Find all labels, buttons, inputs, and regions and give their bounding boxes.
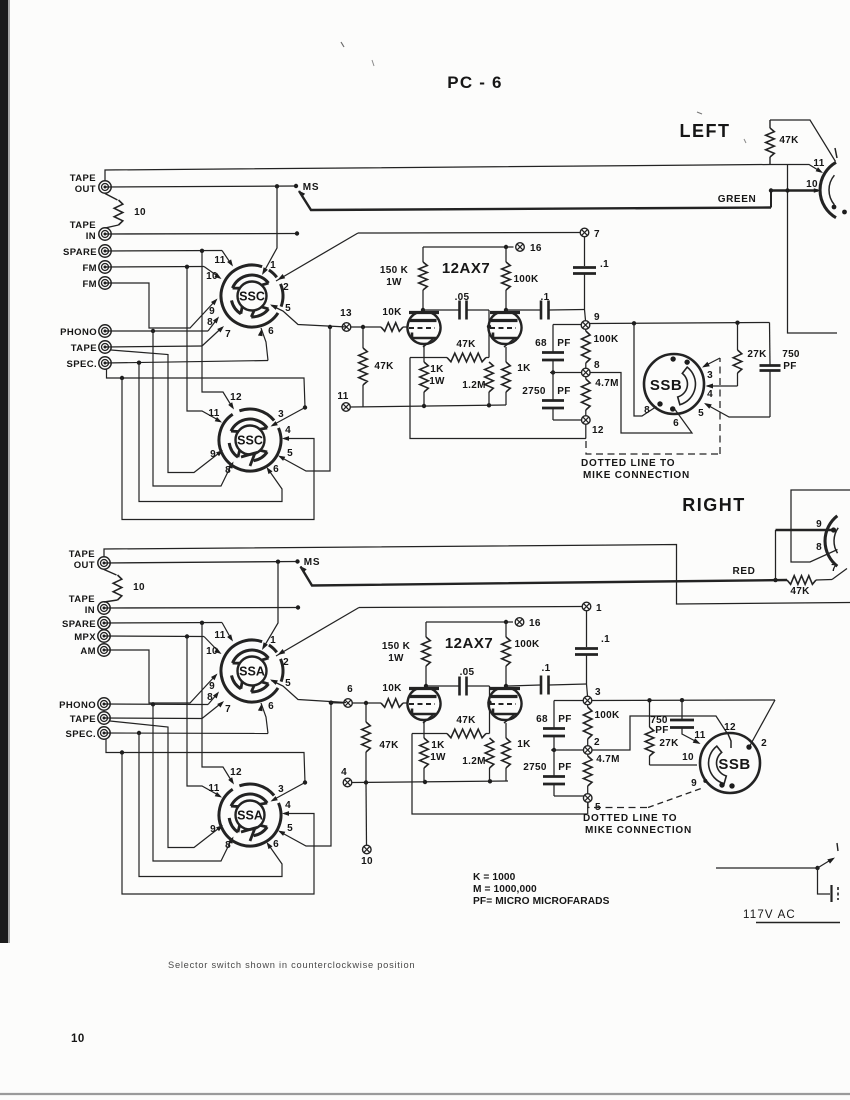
svg-text:MS: MS [304, 557, 321, 568]
svg-text:47K: 47K [456, 715, 476, 726]
wire: jack PHONO to SSC pin 8 [105, 330, 208, 332]
svg-text:47K: 47K [456, 339, 476, 350]
wire: SPARE drop to SSA2 pin 12 [202, 623, 233, 783]
svg-text:PF: PF [557, 338, 570, 349]
capacitor .1 (right, to node 1) [586, 611, 588, 647]
svg-text:3: 3 [595, 687, 601, 698]
capacitor .05 (right) [426, 685, 459, 687]
wire: SSB pin 3 to mike dashed line (left) [704, 358, 721, 367]
wire: cathode rail (right) [352, 781, 508, 783]
svg-text:PF: PF [558, 762, 571, 773]
svg-text:11: 11 [214, 630, 225, 641]
svg-text:4.7M: 4.7M [596, 754, 619, 765]
svg-text:47K: 47K [790, 586, 810, 597]
svg-text:100K: 100K [593, 334, 619, 345]
svg-text:PHONO: PHONO [59, 700, 96, 711]
wire: PHONO drop to SSC2 pin 8 [153, 331, 232, 486]
svg-text:4: 4 [285, 425, 291, 436]
resistor 47K (right output) [787, 576, 816, 585]
svg-text:6: 6 [273, 464, 279, 475]
wire: 47K top to output switch pin 1 [770, 120, 836, 162]
jack J16 SPEC. (right) [98, 727, 110, 739]
svg-text:TAPE: TAPE [69, 549, 95, 560]
wire: TAPE IN row (right) [104, 607, 298, 610]
svg-text:10: 10 [133, 582, 145, 593]
svg-text:2: 2 [594, 737, 600, 748]
svg-text:12: 12 [230, 767, 242, 778]
wire: MPX drop to SSA2 pin 11 [187, 637, 220, 797]
svg-text:8: 8 [644, 405, 650, 416]
resistor 10K (right) [352, 702, 381, 704]
svg-text:10: 10 [134, 207, 146, 218]
svg-text:6: 6 [347, 684, 353, 695]
svg-text:3: 3 [278, 784, 284, 795]
rotary switch SSC (top wafer, left) [221, 265, 278, 327]
svg-text:PF: PF [557, 386, 570, 397]
wire: cathode rail (left) [351, 405, 507, 407]
wire: node 16 rail (left) [423, 246, 514, 248]
svg-text:OUT: OUT [74, 560, 95, 571]
svg-text:2: 2 [761, 738, 767, 749]
svg-text:68: 68 [535, 338, 547, 349]
svg-text:9: 9 [594, 312, 600, 323]
wire: node 11 row to SSC2 pin 3 [303, 405, 307, 409]
jack J11 SPARE (right) [98, 617, 110, 629]
svg-text:SPARE: SPARE [62, 619, 96, 630]
resistor 10 (right tape loop) [104, 570, 117, 576]
jack J5 FM (left) [99, 277, 111, 289]
wire: node 2 to SSB pin 12 (right) [592, 716, 727, 750]
node 7 [580, 228, 589, 237]
svg-text:7: 7 [225, 704, 231, 715]
svg-text:16: 16 [529, 618, 541, 629]
svg-text:2750: 2750 [522, 386, 546, 397]
resistor 1K 1W (right) [423, 721, 425, 738]
capacitor 68 PF (left) [552, 325, 554, 353]
svg-text:11: 11 [214, 255, 225, 266]
svg-text:1K: 1K [517, 739, 531, 750]
wire: jack PHONO to SSA pin 8 [104, 703, 208, 706]
capacitor .1 coupling (right) [506, 685, 540, 686]
svg-text:8: 8 [816, 542, 822, 553]
wire: jack FM2 to SSC pin 9 [105, 283, 216, 328]
svg-text:2750: 2750 [523, 762, 547, 773]
triode V1A (left) [408, 313, 441, 344]
jack J9 TAPE OUT (right) [98, 557, 110, 569]
svg-text:.1: .1 [600, 259, 609, 270]
wire: TAPE drop to SSA2 pin 9 [110, 721, 221, 848]
svg-text:10: 10 [206, 271, 218, 282]
jack J7 TAPE (left) [99, 341, 111, 353]
wire: node 6 drop to SSA2 pin 5 [329, 701, 333, 705]
wire: TAPE IN row (left) [105, 233, 297, 236]
svg-text:DOTTED LINE TO: DOTTED LINE TO [581, 458, 675, 469]
svg-text:10: 10 [361, 856, 373, 867]
node 13 [342, 323, 351, 332]
svg-text:150 K: 150 K [380, 265, 409, 276]
svg-text:TAPE: TAPE [71, 343, 97, 354]
node 16 (left) [516, 243, 525, 252]
svg-text:12: 12 [592, 425, 604, 436]
resistor 150K 1W (right) [425, 622, 427, 637]
wire: jack TAPE to SSA pin 7 [104, 717, 202, 720]
svg-text:4.7M: 4.7M [595, 378, 618, 389]
svg-text:4: 4 [341, 767, 347, 778]
svg-text:3: 3 [707, 370, 713, 381]
svg-text:SPARE: SPARE [63, 247, 97, 258]
node 10 (right) [363, 845, 372, 854]
svg-text:6: 6 [273, 839, 279, 850]
resistor 47K feedback (right) [412, 733, 447, 735]
jack J14 PHONO (right) [98, 698, 110, 710]
svg-text:PC - 6: PC - 6 [447, 73, 502, 92]
svg-text:68: 68 [536, 714, 548, 725]
svg-text:OUT: OUT [75, 184, 96, 195]
svg-text:1K: 1K [517, 363, 531, 374]
scan specks [341, 42, 344, 47]
wire: FM drop to SSC2 pin 11 [187, 267, 220, 421]
rotary switch (left output, partial at page edge) [820, 162, 836, 217]
rotary switch (right output, partial at page edge) [825, 516, 837, 566]
wire: .05 output to tube2 grid (right) [489, 686, 491, 734]
wire: SPARE drop to SSC2 pin 12 [202, 251, 233, 408]
svg-text:LEFT: LEFT [680, 121, 731, 141]
jack J6 PHONO (left) [99, 325, 111, 337]
svg-text:5: 5 [287, 448, 293, 459]
svg-text:RED: RED [733, 566, 756, 577]
svg-text:FM: FM [82, 279, 97, 290]
svg-text:PF: PF [655, 725, 668, 736]
node 11 [342, 403, 351, 412]
resistor 10K (left) [350, 326, 381, 328]
svg-text:47K: 47K [374, 361, 394, 372]
wire: TAPE OUT (right) top wire to off-page right [104, 545, 850, 605]
svg-text:11: 11 [813, 158, 824, 169]
svg-text:PHONO: PHONO [60, 327, 97, 338]
svg-text:12AX7: 12AX7 [442, 260, 490, 277]
wire: output switch pin 8 box (right) [791, 490, 850, 562]
svg-text:9: 9 [691, 778, 697, 789]
svg-text:10: 10 [206, 646, 218, 657]
resistor 47K input (left) [361, 325, 365, 329]
svg-text:5: 5 [698, 408, 704, 419]
wire: .05 output to tube2 grid and 1.2M [488, 310, 490, 358]
svg-text:7: 7 [225, 329, 231, 340]
svg-text:SSB: SSB [718, 756, 750, 773]
node 12 [582, 416, 591, 425]
capacitor 68 PF (right) [553, 701, 555, 729]
resistor 1K 1W (left) [423, 345, 425, 362]
svg-text:RIGHT: RIGHT [682, 495, 746, 515]
svg-text:10K: 10K [382, 683, 402, 694]
wire: SSB box left leg to pin 8 (left) [634, 323, 657, 416]
wire: node 8 to SSB pin 6 (left) [591, 373, 693, 434]
resistor 1.2M (left) [485, 362, 494, 392]
svg-text:.05: .05 [455, 292, 470, 303]
wire: TAPE OUT to output switch pin 11 (top long wire) [105, 165, 821, 182]
jack J4 FM (left) [99, 261, 111, 273]
wire: feedback left leg to bottom rail (right) [412, 734, 587, 815]
svg-text:PF: PF [783, 361, 796, 372]
wire: 47K input to node 10 (right) [365, 783, 368, 846]
svg-text:K = 1000: K = 1000 [473, 872, 516, 883]
rotary switch SSA (top wafer, right) [221, 640, 278, 702]
svg-text:10K: 10K [382, 307, 402, 318]
svg-text:150 K: 150 K [382, 641, 411, 652]
capacitor 750 PF (left) [769, 323, 772, 366]
wire: long vertical from pin-10 net down right side [788, 165, 838, 334]
svg-text:27K: 27K [659, 738, 679, 749]
wire: 27K to SSB pin 10 (right) [650, 764, 698, 766]
svg-text:12: 12 [724, 722, 736, 733]
switch 117V AC (bottom right) [716, 867, 817, 869]
wire: node 9 stub to 68PF [553, 324, 581, 326]
capacitor .1 coupling (left) [506, 309, 540, 311]
resistor 100K plate (right) [505, 622, 507, 637]
svg-text:6: 6 [673, 418, 679, 429]
svg-text:47K: 47K [379, 740, 399, 751]
wire: diagonal to SSC pin 2 from node7 rail [276, 233, 358, 281]
dashed mike connection line (right) [588, 802, 648, 808]
svg-text:750: 750 [782, 349, 800, 360]
wire: PHONO drop to SSA2 pin 8 [153, 704, 232, 861]
svg-text:3: 3 [278, 409, 284, 420]
capacitor .1 (left, to node 7) [584, 237, 586, 266]
svg-text:SPEC.: SPEC. [66, 359, 97, 370]
svg-text:10: 10 [806, 179, 818, 190]
capacitor 750 PF (right) [681, 700, 683, 719]
wire: node 16 rail (right) [426, 621, 513, 623]
svg-text:7: 7 [594, 229, 600, 240]
svg-text:SSA: SSA [239, 665, 265, 679]
wire: SPEC bottom rail to SSC2 pin 4 (outer loop) [107, 369, 306, 408]
wire: node 13 drop to SSC2 pin 5 [328, 325, 332, 329]
wire: SPEC bottom rail to SSA2 pin 4 (outer loop) [106, 739, 305, 783]
svg-text:8: 8 [594, 360, 600, 371]
resistor 47K (left output, top right) [766, 128, 775, 157]
capacitor 2750 PF (left) [551, 370, 555, 374]
wire: TAPE OUT row to MS switch [105, 186, 296, 187]
wire: diagonal to SSA pin 2 from node1 rail [276, 608, 359, 657]
wire: RED junction up to output switch pin 9 [773, 578, 777, 582]
resistor 150K 1W (left) [422, 247, 424, 262]
wire: feedback left leg down to bottom rail [410, 358, 586, 439]
resistor 100K plate (left) [505, 247, 507, 262]
svg-text:10: 10 [682, 752, 694, 763]
triode V2A (right) [408, 689, 441, 720]
svg-text:8: 8 [207, 692, 213, 703]
wire: SSC pin 5 to node 13 [272, 306, 348, 328]
svg-text:6: 6 [268, 326, 274, 337]
svg-text:12: 12 [230, 392, 242, 403]
svg-text:1K: 1K [430, 364, 444, 375]
resistor 10 (left tape loop) [105, 194, 118, 201]
wire: jack SPEC to SSA pin 6 [104, 732, 268, 735]
svg-text:4: 4 [285, 800, 291, 811]
svg-text:6: 6 [268, 701, 274, 712]
wire: TAPE OUT vertical to SSA pin 1 [264, 562, 279, 648]
resistor 47K feedback (left) [410, 357, 447, 359]
switch MS arm / GREEN wire (left) [299, 191, 306, 198]
wire: node 4 row to SSA2 pin 3 [303, 780, 307, 784]
svg-text:8: 8 [225, 840, 231, 851]
svg-text:.1: .1 [542, 663, 551, 674]
svg-text:117V AC: 117V AC [743, 909, 796, 921]
wire: node 7 rail [358, 232, 580, 235]
svg-text:1: 1 [270, 635, 276, 646]
wire: TAPE OUT row to MS (right) [104, 562, 298, 564]
svg-text:SSA: SSA [237, 809, 263, 823]
svg-text:1.2M: 1.2M [462, 756, 485, 767]
node 9 [585, 310, 586, 321]
jack J3 SPARE (left) [99, 245, 111, 257]
jack J12 MPX (right) [98, 630, 110, 642]
resistor 100K (left divider) [585, 330, 587, 332]
svg-text:9: 9 [816, 519, 822, 530]
svg-text:9: 9 [210, 449, 216, 460]
triode V1B (left) [489, 313, 522, 344]
wire: jack FM to SSC pin 10 [105, 266, 204, 269]
svg-text:1W: 1W [430, 752, 446, 763]
svg-text:.05: .05 [460, 667, 475, 678]
wire: node 1 rail [359, 607, 582, 608]
svg-text:1W: 1W [386, 277, 402, 288]
wire: jack SPARE to SSA pin 11 [104, 622, 222, 625]
svg-text:DOTTED LINE TO: DOTTED LINE TO [583, 813, 677, 824]
svg-text:5: 5 [285, 303, 291, 314]
svg-text:PF= MICRO MICROFARADS: PF= MICRO MICROFARADS [473, 896, 610, 907]
svg-text:5: 5 [287, 823, 293, 834]
svg-text:GREEN: GREEN [718, 194, 757, 205]
svg-text:47K: 47K [779, 135, 799, 146]
node 6 [344, 699, 353, 708]
wire: jack SPEC to SSC pin 6 [105, 361, 268, 364]
capacitor .05 (left) [423, 309, 459, 311]
resistor 1K tube2 cathode (right) [505, 723, 507, 738]
svg-text:11: 11 [208, 783, 219, 794]
node 1 [582, 602, 591, 611]
svg-text:SSB: SSB [650, 377, 682, 394]
resistor 4.7M (left) [585, 377, 587, 379]
svg-text:.1: .1 [601, 634, 610, 645]
svg-text:1.2M: 1.2M [462, 380, 485, 391]
wire: node 9 to SSB box (left) [590, 323, 770, 324]
svg-text:1K: 1K [431, 740, 445, 751]
rotary switch SSA (bottom wafer, right) [219, 789, 281, 846]
svg-text:FM: FM [82, 263, 97, 274]
wire: node 12 to bottom rail [585, 425, 587, 439]
wire: node 5 to bottom rail (right) [587, 803, 589, 814]
socket SSB (left, mike connection) [644, 354, 704, 414]
svg-text:100K: 100K [513, 274, 539, 285]
resistor 47K input (right) [364, 701, 368, 705]
svg-text:4: 4 [707, 389, 713, 400]
svg-text:PF: PF [558, 714, 571, 725]
svg-text:9: 9 [210, 824, 216, 835]
svg-text:12AX7: 12AX7 [445, 635, 493, 652]
svg-text:SSC: SSC [239, 290, 265, 304]
svg-text:10: 10 [71, 1033, 85, 1045]
svg-text:5: 5 [285, 678, 291, 689]
jack J15 TAPE (right) [98, 712, 110, 724]
svg-text:TAPE: TAPE [70, 220, 96, 231]
svg-text:AM: AM [80, 646, 96, 657]
resistor 27K (right) [649, 700, 651, 727]
triode V2B (right) [489, 689, 522, 720]
svg-text:MIKE CONNECTION: MIKE CONNECTION [583, 470, 690, 481]
svg-text:TAPE: TAPE [70, 714, 96, 725]
wire: SPEC drop to SSC2 pin 6 [139, 363, 282, 502]
svg-text:MS: MS [303, 182, 320, 193]
svg-text:1W: 1W [429, 376, 445, 387]
resistor 27K (left) [737, 323, 739, 350]
wire: SSA pin 5 to node 6 [272, 681, 347, 703]
switch MS arm / RED wire (right) [300, 566, 307, 573]
svg-text:100K: 100K [594, 710, 620, 721]
jack J10 TAPE IN (right) [98, 602, 110, 614]
wire: jack TAPE to SSC pin 7 [105, 346, 202, 347]
svg-text:M = 1000,000: M = 1000,000 [473, 884, 537, 895]
node 8 [582, 368, 591, 377]
svg-text:27K: 27K [747, 349, 767, 360]
wire: SPEC drop to SSA2 pin 6 [139, 733, 282, 877]
scan artifact: bottom page edge line [0, 1093, 850, 1095]
resistor 4.7M (right) [587, 755, 589, 756]
resistor 100K (right divider) [587, 705, 589, 707]
svg-text:1: 1 [596, 603, 602, 614]
wire: jack MPX to SSA pin 10 [104, 635, 204, 638]
node 5 [583, 794, 592, 803]
node 4 [343, 778, 352, 787]
svg-text:13: 13 [340, 308, 352, 319]
svg-text:8: 8 [207, 317, 213, 328]
svg-text:IN: IN [85, 605, 95, 616]
wire: SSB pin 5 to 750PF (left) [706, 404, 771, 417]
wire: node 3 box to SSB pin 2 (right) [750, 700, 775, 746]
svg-text:TAPE: TAPE [69, 594, 95, 605]
dashed mike connection line (left) [586, 441, 720, 454]
svg-text:11: 11 [208, 408, 219, 419]
svg-text:11: 11 [694, 730, 705, 741]
svg-text:SSC: SSC [237, 434, 263, 448]
svg-text:9: 9 [209, 681, 215, 692]
svg-text:9: 9 [209, 306, 215, 317]
node 16 (right) [515, 618, 524, 627]
socket SSB (right, mike connection) [700, 733, 760, 793]
svg-text:MIKE CONNECTION: MIKE CONNECTION [585, 825, 692, 836]
svg-text:Selector switch shown in count: Selector switch shown in counterclockwis… [168, 960, 415, 970]
wire: jack AM to SSA pin 9 [104, 650, 216, 703]
rotary switch SSC (bottom wafer, left) [219, 414, 281, 471]
svg-text:1W: 1W [388, 653, 404, 664]
svg-text:SPEC.: SPEC. [65, 729, 96, 740]
svg-text:IN: IN [86, 231, 96, 242]
svg-text:16: 16 [530, 243, 542, 254]
svg-text:100K: 100K [514, 639, 540, 650]
wire: 27K to SSB pin 4 (left) [707, 385, 738, 387]
svg-text:.1: .1 [541, 292, 550, 303]
svg-text:MPX: MPX [74, 632, 96, 643]
jack J2 TAPE IN (left) [99, 228, 111, 240]
capacitor 2750 PF (right) [552, 748, 556, 752]
resistor 1.2M (right) [485, 738, 494, 768]
wire: node 3 to SSB box (right) [592, 699, 775, 702]
wire: TAPE drop to SSC2 pin 9 [111, 350, 221, 473]
jack J1 TAPE OUT (left) [99, 181, 111, 193]
jack J8 SPEC. (left) [99, 357, 111, 369]
resistor 1K tube2 cathode (left) [505, 347, 507, 362]
svg-text:1: 1 [270, 260, 276, 271]
